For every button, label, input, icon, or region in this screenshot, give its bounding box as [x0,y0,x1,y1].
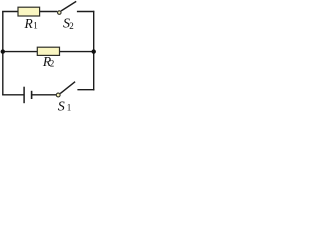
svg-text:S: S [58,100,65,113]
wire top horizontal right [77,11,94,13]
switch S1 contact [56,93,60,97]
svg-text:2: 2 [50,59,55,69]
wire left vertical [2,12,4,95]
svg-text:1: 1 [33,21,38,31]
node junction right [92,49,96,53]
svg-text:R: R [24,16,34,31]
wire right vertical [93,11,95,91]
wire middle branch [3,51,94,53]
wire top horizontal left [2,11,57,13]
resistor R2 [37,47,59,55]
battery long plate [23,87,25,104]
switch S2 lever [61,1,76,11]
wire battery to S1 [32,94,56,96]
wire bottom left to battery [2,94,24,96]
switch S2 contact [58,11,62,15]
battery short plate [31,91,33,99]
svg-text:2: 2 [69,21,74,31]
wire S1 right stub [77,89,94,91]
node junction left [1,49,5,53]
svg-text:1: 1 [67,103,72,112]
resistor R1 [18,7,40,16]
switch S1 lever [60,82,75,94]
